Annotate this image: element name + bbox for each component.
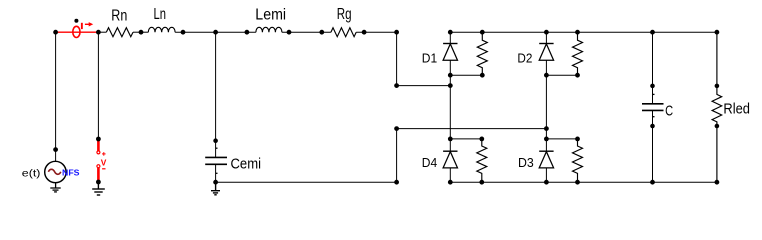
node source top — [53, 30, 58, 35]
node AC1 left — [394, 83, 399, 88]
current probe ellipse — [73, 26, 80, 37]
node Rg left — [319, 30, 324, 35]
wire bridge top rail — [450, 31, 717, 33]
node D1 bottom — [448, 73, 453, 78]
voltage probe minus sign — [102, 168, 105, 170]
svg-text:Rn: Rn — [111, 7, 127, 24]
current probe arrowhead — [89, 22, 94, 26]
wire D2 parallel link — [546, 74, 577, 76]
node Rled bottom rail — [715, 180, 720, 185]
svg-text:V: V — [101, 157, 107, 167]
node Rg corner — [394, 30, 399, 35]
svg-text:Rled: Rled — [723, 101, 750, 118]
node Cemi bottom — [213, 180, 218, 185]
wire top rail red section with current probe — [56, 31, 99, 33]
node Rled lower terminal — [715, 124, 720, 129]
wire Cemi bottom run — [216, 181, 397, 183]
node D3 bottom — [544, 180, 549, 185]
node Rled top — [715, 30, 720, 35]
node RD4 bottom — [479, 180, 484, 185]
node D4 bottom — [448, 180, 453, 185]
node D3 top — [544, 137, 549, 142]
svg-text:D2: D2 — [517, 50, 532, 65]
node D4 top — [448, 137, 453, 142]
svg-text:e(t): e(t) — [22, 168, 41, 179]
diode D4 — [443, 139, 457, 182]
node C lower terminal — [650, 124, 655, 129]
resistor Rg — [331, 28, 356, 37]
wire D1 bottom to D4 top — [449, 75, 451, 139]
node riser corner — [394, 180, 399, 185]
voltage probe red lead top — [97, 140, 100, 151]
node AC1 right — [448, 83, 453, 88]
node probe top terminal — [96, 137, 101, 142]
svg-text:Cemi: Cemi — [231, 155, 262, 172]
node RD4 top — [479, 137, 484, 142]
svg-text:D3: D3 — [518, 155, 534, 170]
diode D3 — [539, 139, 553, 182]
node AC2 left — [394, 126, 399, 131]
resistor Rled — [712, 32, 722, 182]
svg-text:C: C — [665, 103, 673, 120]
diode D1 — [443, 32, 457, 75]
node Ln right — [181, 30, 186, 35]
diode D2 — [539, 32, 553, 75]
node D2 top — [544, 30, 549, 35]
voltage probe terminal circle minus — [97, 165, 100, 168]
capacitor Cemi — [205, 148, 227, 182]
resistor parallel to D2 — [573, 32, 583, 75]
node Lemi left — [245, 30, 250, 35]
capacitor C — [642, 32, 664, 182]
node RD1 bottom — [480, 73, 485, 78]
inductor Ln — [148, 27, 175, 32]
svg-text:Rg: Rg — [337, 6, 352, 23]
svg-text:D1: D1 — [422, 50, 437, 65]
ground below voltage probe — [92, 182, 105, 195]
node Rg right — [362, 30, 367, 35]
node C upper terminal — [650, 84, 655, 89]
node AC2 right — [544, 126, 549, 131]
wire D2 bottom to D3 top — [545, 75, 547, 139]
wire voltage probe branch — [97, 32, 99, 139]
voltage probe plus sign — [102, 152, 106, 156]
wire D1 parallel link — [450, 74, 482, 76]
ground below source — [50, 183, 60, 192]
node source terminal — [53, 147, 58, 152]
current probe label I — [81, 23, 83, 29]
node Cemi top terminal — [213, 138, 218, 143]
wire Cemi branch vertical — [215, 32, 217, 157]
node RD2 bottom — [575, 73, 580, 78]
ground below Cemi — [211, 182, 220, 195]
node C top — [650, 30, 655, 35]
source sine wave — [48, 169, 60, 174]
node D2 bottom — [544, 73, 549, 78]
wire D3 parallel link — [546, 138, 577, 140]
node Rn right — [139, 30, 144, 35]
node RD3 top — [575, 137, 580, 142]
node Lemi right — [287, 30, 292, 35]
wire Lemi to Rg — [282, 31, 331, 33]
wire left vertical source feed — [55, 32, 57, 161]
node probe branch — [96, 30, 101, 35]
wire AC2 horizontal — [397, 128, 547, 130]
wire Rg to corner — [356, 31, 396, 33]
wire riser up to AC2 — [396, 129, 398, 183]
voltage probe red lead bottom — [97, 168, 100, 182]
wire AC1 horizontal — [397, 85, 451, 87]
wire bridge bottom rail — [450, 181, 717, 183]
node C bottom rail — [650, 180, 655, 185]
svg-text:NFS: NFS — [62, 167, 80, 177]
node probe bottom terminal — [96, 180, 101, 185]
wire D4 parallel link — [450, 138, 482, 140]
node Rled upper terminal — [715, 84, 720, 89]
svg-text:Ln: Ln — [154, 6, 167, 23]
node Cemi branch — [213, 30, 218, 35]
wire corner down to AC1 — [396, 32, 398, 85]
svg-text:Lemi: Lemi — [255, 7, 286, 24]
resistor parallel to D4 — [477, 139, 487, 182]
wire Ln to Lemi — [175, 31, 256, 33]
wire Rn left lead — [98, 31, 106, 33]
current probe arrow shaft — [85, 23, 91, 25]
current probe terminal dot — [74, 19, 78, 23]
voltage probe terminal circle plus — [97, 151, 100, 154]
source e(t) circle — [45, 161, 66, 182]
resistor Rn — [106, 28, 133, 37]
node RD1 top — [480, 30, 485, 35]
node RD2 top — [575, 30, 580, 35]
inductor Lemi — [256, 27, 282, 32]
node RD3 bottom — [575, 180, 580, 185]
resistor parallel to D3 — [573, 139, 583, 182]
svg-text:D4: D4 — [422, 155, 437, 170]
resistor parallel to D1 — [477, 32, 487, 75]
wire Rn to Ln — [133, 31, 148, 33]
node D1 top — [448, 30, 453, 35]
